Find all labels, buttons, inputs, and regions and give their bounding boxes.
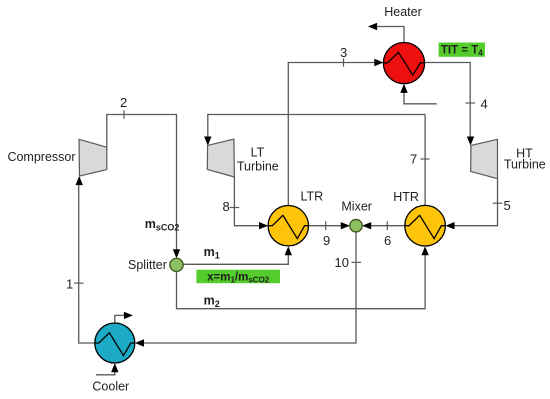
svg-text:2: 2: [120, 95, 127, 110]
svg-text:7: 7: [410, 152, 417, 167]
svg-text:Compressor: Compressor: [7, 150, 75, 164]
svg-text:TIT = T4: TIT = T4: [441, 45, 483, 58]
svg-text:3: 3: [340, 45, 347, 60]
svg-text:1: 1: [66, 277, 73, 292]
svg-text:10: 10: [335, 255, 349, 270]
svg-text:LT: LT: [251, 146, 265, 160]
svg-text:Mixer: Mixer: [341, 200, 372, 214]
svg-text:Turbine: Turbine: [237, 160, 279, 174]
svg-text:HTR: HTR: [393, 190, 419, 204]
svg-text:5: 5: [504, 198, 511, 213]
svg-text:8: 8: [223, 199, 230, 214]
svg-text:Cooler: Cooler: [92, 380, 129, 394]
svg-text:9: 9: [323, 233, 330, 248]
svg-text:Turbine: Turbine: [504, 158, 546, 172]
svg-text:Heater: Heater: [384, 5, 422, 19]
svg-text:Splitter: Splitter: [128, 258, 167, 272]
svg-text:6: 6: [384, 233, 391, 248]
svg-text:LTR: LTR: [301, 190, 324, 204]
svg-text:4: 4: [481, 97, 488, 112]
